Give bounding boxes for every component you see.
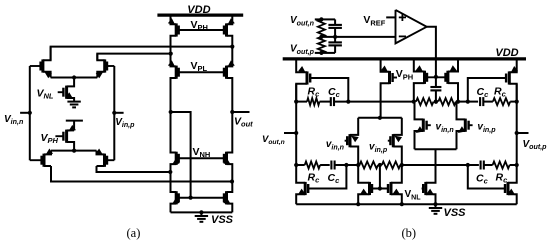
wire VSS rail (a): [171, 211, 233, 213]
node V_NH label (a): [193, 146, 211, 159]
node caption (a): [127, 226, 141, 240]
op-amp U1: [396, 10, 427, 44]
wire T-bar stub: [66, 121, 83, 131]
wire upper bus seg7: [510, 100, 519, 104]
wire left output rail: [294, 84, 298, 183]
capacitor C2b: [328, 42, 342, 45]
wire bottom pair gate link (a): [179, 197, 224, 199]
wire lower bus seg1: [296, 164, 305, 166]
node lower mid: [378, 163, 382, 167]
node v_in,p inner label: [477, 122, 496, 134]
wire first stage lower-right drain to stage2: [97, 166, 173, 174]
node Cc upper-right label: [477, 86, 490, 99]
node caption (b): [402, 226, 417, 240]
power VDD rail (a): [157, 13, 243, 16]
node V_out label: [234, 115, 253, 128]
transistor M13b V_NL (b): [422, 182, 436, 204]
wire pair1 top rail: [358, 116, 402, 120]
node v_in,n outer label: [326, 139, 345, 151]
wire VSS rail (b): [296, 202, 517, 206]
node Rc upper-right label: [494, 85, 507, 98]
transistor M14b output NMOS right: [505, 182, 517, 204]
transistor M10b output NMOS left: [296, 182, 309, 204]
node V_out,p sense label: [290, 44, 315, 56]
wire first stage lower-left drain to stage2: [51, 166, 234, 184]
node v_in,p outer label: [369, 142, 388, 154]
wire upper pair tail: [51, 75, 98, 79]
capacitor C1b: [328, 25, 342, 28]
node V_in,n label: [4, 114, 24, 126]
transistor M1b output PMOS left: [296, 59, 311, 102]
transistor M9a V_PL pair left: [168, 54, 179, 112]
resistor Rc upper-right: [493, 98, 510, 105]
node Cc lower-left label: [328, 172, 341, 185]
wire pair3 gates: [372, 165, 388, 191]
wire cap branch top: [321, 19, 335, 25]
wire first stage upper-right drain to stage2: [97, 52, 172, 61]
resistor Rc lower-left: [305, 162, 320, 169]
node V_REF label: [363, 14, 385, 27]
resistor Rc lower-right: [493, 162, 510, 169]
resistor R6b lower mid-right: [382, 162, 401, 169]
wire lower bus seg6: [484, 164, 493, 166]
wire upper bus seg1: [294, 100, 307, 104]
wire upper bus seg4: [456, 100, 468, 104]
wire V_out,p sense: [315, 51, 324, 55]
node sense mid: [319, 35, 323, 39]
capacitor Cc lower-left: [331, 161, 334, 170]
wire upper bus seg5: [468, 101, 478, 103]
ground VSS (a): [195, 210, 208, 222]
node V_out,p label (b): [523, 139, 548, 151]
transistor M9b inner pair right: [457, 102, 473, 150]
wire mid to opamp: [321, 36, 395, 38]
transistor M2b V_PH (b): [381, 59, 397, 118]
wire cap mid: [333, 28, 337, 43]
node Cc upper-left label: [328, 86, 341, 99]
node v_in,n inner label: [436, 122, 455, 134]
node Rc upper-left label: [308, 85, 321, 98]
wire V_PL gate link: [179, 71, 224, 73]
node CMFB mid: [434, 100, 438, 104]
transistor M11a V_NH pair left: [171, 112, 180, 172]
wire V_in,n input rail: [20, 66, 32, 160]
node VDD label (a): [187, 4, 210, 16]
transistor M14a bottom pair right: [223, 182, 232, 213]
wire lower bus seg3: [335, 163, 361, 167]
node V_in,p label: [115, 117, 135, 129]
transistor M2a upper-left pair right: [96, 54, 115, 79]
transistor M6a lower-left pair right: [96, 149, 115, 167]
svg-text:VDD: VDD: [495, 47, 518, 59]
svg-text:(a): (a): [127, 226, 141, 240]
resistor R5b lower mid-left: [360, 162, 379, 169]
svg-text:VSS: VSS: [211, 214, 234, 226]
resistor R2b: [318, 37, 325, 53]
svg-text:VSS: VSS: [444, 207, 467, 219]
transistor M11b bottom pair left: [358, 165, 372, 204]
wire upper bus seg3: [334, 100, 416, 104]
transistor M4a V_PH cascode: [55, 125, 76, 151]
wire V_NH gate link: [179, 157, 224, 159]
node V_NL label (b): [405, 189, 422, 201]
node V_out stub: [232, 111, 249, 113]
wire opamp output: [427, 27, 438, 79]
node VSS label (b): [444, 207, 467, 219]
capacitor Cc upper-right: [480, 97, 483, 106]
resistor Rc upper-left: [307, 98, 320, 105]
transistor M3b CMFB PMOS left: [414, 59, 436, 102]
ground below V_NL: [67, 102, 80, 108]
wire M5b gate to comp node: [466, 78, 506, 104]
wire lower bus seg4: [400, 163, 470, 167]
wire lower pair tail: [51, 149, 97, 153]
node V_PH label left block: [41, 132, 59, 145]
node Rc lower-left label: [308, 171, 321, 184]
transistor M12a V_NH pair right: [223, 112, 232, 182]
transistor M6b outer pair left: [345, 118, 359, 165]
transistor M10a V_PL pair right: [224, 47, 235, 112]
wire upper bus seg2: [320, 101, 331, 103]
node V_out,n label (b): [262, 134, 285, 146]
node right mid junction: [230, 110, 234, 114]
node Cc lower-right label: [476, 172, 489, 185]
node V_out,n sense label: [290, 15, 315, 27]
capacitor Cc upper-left: [331, 97, 334, 106]
wire lower bus seg7: [510, 164, 517, 166]
node Rc lower-right label: [496, 171, 509, 184]
node V_PH label (b): [396, 68, 413, 81]
node V_PL label (a): [191, 60, 208, 73]
transistor M7b outer pair right: [388, 118, 402, 165]
ground VSS (b): [429, 204, 442, 214]
node V_NL label: [37, 87, 54, 100]
transistor M12b bottom pair right: [388, 165, 402, 204]
transistor M8b inner pair left: [415, 102, 431, 150]
transistor M7a V_PH pair left: [168, 15, 179, 54]
node V_out,p stub (b): [517, 132, 529, 134]
wire right output rail: [515, 84, 519, 183]
resistor R1b: [318, 19, 325, 37]
svg-text:VDD: VDD: [187, 4, 210, 16]
node VDD label (b): [495, 47, 518, 59]
node V_PH label (a): [191, 19, 208, 32]
wire V_REF to opamp: [386, 16, 395, 18]
wire V_out,n sense: [315, 17, 324, 21]
capacitor Cc lower-right: [481, 161, 484, 170]
wire M10b gate wire: [310, 165, 347, 189]
resistor R3b CMFB left: [416, 98, 434, 105]
svg-text:(b): (b): [402, 226, 417, 240]
transistor M5b output PMOS right: [505, 59, 518, 102]
wire V_PH gate link: [179, 29, 224, 31]
transistor M5a lower-left pair left: [30, 149, 53, 167]
wire cap branch bottom: [321, 45, 335, 53]
wire lower bus seg2: [320, 164, 330, 166]
power VDD rail (b): [283, 57, 526, 60]
node left mid junction: [169, 110, 173, 114]
node V_out,n stub (b): [284, 132, 296, 134]
wire M1b gate to comp node: [310, 78, 350, 104]
resistor R4b CMFB right: [438, 98, 456, 105]
wire M14b gate wire: [468, 165, 505, 189]
transistor M8a V_PH pair right: [224, 15, 235, 46]
transistor M13a bottom pair left: [171, 172, 180, 212]
wire pair2 tail rail: [415, 149, 457, 182]
wire V_in,p input rail: [112, 66, 123, 160]
transistor M1a upper-left pair left: [30, 47, 52, 79]
wire inner feedback: [171, 112, 193, 200]
transistor M4b CMFB PMOS right: [436, 59, 458, 102]
wire lower bus seg5: [468, 164, 479, 166]
wire first stage upper-left drain to stage2: [51, 45, 235, 61]
capacitor C3b CMFB: [430, 77, 441, 103]
wire upper bus seg6: [483, 101, 493, 103]
transistor M3a V_NL tail: [58, 78, 74, 102]
node VSS label (a): [211, 214, 234, 226]
